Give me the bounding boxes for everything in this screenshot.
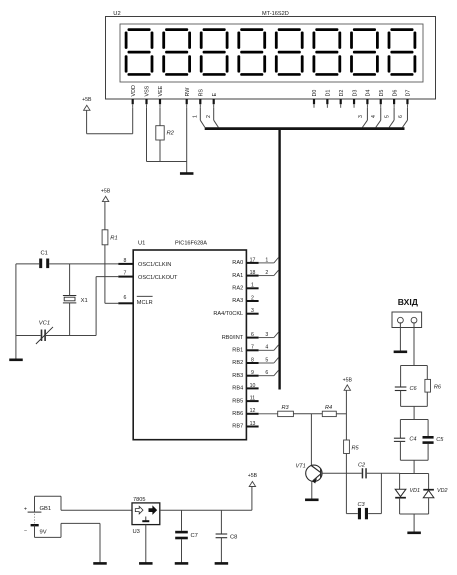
svg-text:R2: R2 [167, 131, 175, 137]
svg-text:4: 4 [265, 345, 268, 351]
svg-text:VD2: VD2 [437, 488, 448, 494]
resistor R6 [425, 366, 431, 407]
display module U2 [106, 17, 436, 100]
U1 pin 12 RB6 [232, 408, 277, 417]
svg-text:MT-16S2D: MT-16S2D [262, 11, 289, 17]
svg-text:RA2: RA2 [232, 286, 243, 292]
wire battery plus to 7805 [35, 496, 133, 512]
svg-text:C6: C6 [410, 386, 418, 392]
svg-text:D2: D2 [339, 90, 345, 97]
wire battery minus to ground [35, 523, 101, 562]
wire C4/C5 box bottom [400, 459, 428, 461]
wire base line [322, 472, 400, 474]
svg-text:C7: C7 [191, 533, 198, 539]
wire C6/R6 box bottom [401, 405, 428, 407]
svg-text:D3: D3 [352, 90, 358, 97]
svg-text:MCLR: MCLR [137, 300, 153, 306]
svg-text:X1: X1 [81, 298, 88, 304]
ground (C8) [215, 562, 229, 565]
crystal X1 [63, 296, 76, 303]
svg-text:VSS: VSS [145, 85, 151, 96]
wire OSC1/CLKIN line [16, 263, 118, 265]
svg-text:13: 13 [250, 421, 256, 427]
svg-text:VDD: VDD [131, 85, 137, 96]
svg-text:RB2: RB2 [232, 360, 243, 366]
transistor VT1 [306, 465, 322, 483]
wire D5 to bus, numbered 4 [371, 108, 381, 128]
U1 pin 7 OSC1/CLKOUT [118, 271, 178, 281]
capacitor C6 [395, 366, 407, 407]
+5V symbol near VT1 [343, 378, 353, 391]
wire R2 to gnd rail [159, 140, 161, 162]
wire VD box to ground [413, 514, 415, 532]
U1 pin 6 MCLR (active low) [118, 295, 152, 306]
svg-text:RB5: RB5 [232, 398, 243, 404]
svg-text:VD1: VD1 [410, 488, 421, 494]
wire VD box bottom [400, 513, 429, 515]
svg-text:RB1: RB1 [232, 348, 243, 354]
resistor R1 [102, 230, 108, 245]
svg-text:−: − [24, 528, 27, 534]
svg-text:10: 10 [250, 383, 256, 389]
svg-text:RB0/INT: RB0/INT [222, 335, 244, 341]
svg-text:GB1: GB1 [40, 506, 52, 512]
wire emitter to ground [311, 481, 313, 499]
wire +5V down to R5 [345, 390, 347, 440]
svg-text:+: + [24, 507, 27, 513]
U2 pin RS [199, 89, 205, 108]
svg-text:+5В: +5В [101, 189, 111, 195]
trimmer capacitor VC1 [36, 327, 53, 344]
wire connector left pin to ground [399, 322, 401, 351]
svg-text:C4: C4 [409, 436, 416, 442]
svg-text:5: 5 [265, 357, 268, 363]
resistor R4 [322, 411, 336, 416]
ground (battery) [93, 562, 107, 565]
svg-text:RB3: RB3 [232, 373, 243, 379]
wire VEE to R2 [159, 108, 161, 126]
U1 pin 8 OSC1/CLKIN [118, 258, 171, 268]
U1 pin 8 RB2 [232, 357, 278, 366]
svg-text:8: 8 [124, 258, 127, 264]
svg-text:17: 17 [250, 257, 256, 263]
svg-text:C1: C1 [41, 251, 48, 257]
battery GB1 [24, 507, 41, 535]
svg-text:2: 2 [206, 115, 212, 118]
svg-text:+5В: +5В [82, 97, 92, 103]
U1 pin 17 RA0 [232, 257, 278, 266]
wire VSS/VEE/RW join [147, 161, 187, 163]
svg-text:PIC16F628A: PIC16F628A [175, 241, 207, 247]
svg-text:U3: U3 [133, 529, 140, 535]
svg-text:RW: RW [185, 87, 191, 97]
ground (7805) [139, 562, 153, 565]
svg-text:1: 1 [251, 283, 254, 289]
U1 pin 1 RA2 [232, 283, 258, 292]
wire +5V to R1 [104, 202, 106, 230]
U1 pin 11 RB5 [232, 396, 258, 405]
svg-text:OSC1/CLKIN: OSC1/CLKIN [138, 262, 171, 268]
resistor R3 [278, 411, 294, 416]
U2 pin D0 [312, 90, 318, 108]
svg-text:E: E [212, 93, 218, 97]
svg-text:VC1: VC1 [39, 321, 50, 327]
svg-text:OSC1/CLKOUT: OSC1/CLKOUT [138, 275, 178, 281]
U2 pin D7 [406, 90, 412, 108]
svg-text:+5В: +5В [343, 378, 353, 384]
svg-text:C2: C2 [358, 462, 366, 468]
svg-text:U2: U2 [113, 11, 120, 17]
svg-text:3: 3 [265, 332, 268, 338]
ground (C7) [175, 562, 189, 565]
svg-text:D6: D6 [392, 90, 398, 97]
svg-text:12: 12 [250, 408, 256, 414]
+5V symbol top-left [82, 97, 92, 110]
op-amp/MCU U1 PIC16F628A box [133, 250, 246, 440]
wire RS to bus, numbered 1 [192, 108, 205, 128]
svg-text:1: 1 [192, 115, 198, 118]
svg-text:D1: D1 [326, 90, 332, 97]
connector XS1 [392, 312, 422, 328]
svg-text:D0: D0 [312, 90, 318, 97]
svg-text:ВХІД: ВХІД [398, 297, 418, 307]
resistor R2 [156, 126, 164, 140]
wire D4 to bus, numbered 3 [358, 108, 368, 128]
svg-text:9V: 9V [40, 530, 47, 536]
wire X1 top [69, 264, 71, 296]
U1 pin 2 RA3 [232, 295, 258, 304]
wire C6/R6 box top [401, 365, 428, 367]
svg-text:C8: C8 [230, 535, 237, 541]
U2 pin D3 [352, 90, 358, 108]
svg-text:D7: D7 [406, 90, 412, 97]
ground (RW) [180, 172, 194, 175]
svg-text:RA4/T0CKL: RA4/T0CKL [213, 311, 243, 317]
svg-text:D5: D5 [379, 90, 385, 97]
U2 pin RW [185, 87, 191, 108]
wire to C4/C5 box [413, 406, 415, 419]
bus vertical [278, 128, 280, 390]
capacitor C7 [175, 510, 188, 562]
svg-text:6: 6 [124, 295, 127, 301]
U1 pin 18 RA1 [232, 270, 278, 279]
diode VD1 [395, 474, 406, 515]
wire OSC1/CLKOUT to bottom line [96, 277, 118, 336]
capacitor C1 [39, 259, 49, 269]
svg-text:RS: RS [199, 89, 205, 97]
svg-text:D4: D4 [366, 90, 372, 97]
svg-text:5: 5 [385, 115, 391, 118]
U1 pin 13 RB7 [232, 421, 258, 430]
wire +5V rail [160, 509, 252, 511]
svg-text:RA0: RA0 [232, 260, 243, 266]
svg-text:7: 7 [251, 345, 254, 351]
svg-text:R4: R4 [325, 405, 332, 411]
U2 pin D2 [339, 90, 345, 108]
wire R5 to base node [345, 454, 347, 474]
svg-text:7805: 7805 [133, 497, 145, 503]
U1 pin 9 RB3 [232, 370, 278, 379]
svg-text:R6: R6 [434, 384, 442, 390]
U2 pin E [212, 93, 218, 108]
wire to VD box [413, 460, 415, 473]
svg-text:2: 2 [251, 295, 254, 301]
wire RW down [186, 108, 188, 174]
svg-text:9: 9 [251, 370, 254, 376]
ground (VD box) [407, 531, 421, 534]
+5V symbol above R1 [101, 189, 111, 202]
U2 pin D1 [326, 90, 332, 108]
svg-text:8: 8 [251, 357, 254, 363]
capacitor C4 [394, 420, 405, 461]
U2 pin D5 [379, 90, 385, 108]
svg-text:C3: C3 [358, 502, 366, 508]
wire X1 bottom [69, 303, 71, 336]
svg-text:4: 4 [371, 115, 377, 118]
wire C3 loop right [380, 473, 382, 513]
svg-text:11: 11 [250, 396, 255, 402]
capacitor C5 [423, 420, 434, 461]
svg-text:R1: R1 [110, 236, 117, 242]
capacitor C8 [216, 510, 228, 562]
svg-text:R5: R5 [352, 446, 360, 452]
U2 pin VDD [131, 85, 137, 108]
svg-text:VT1: VT1 [296, 464, 306, 470]
wire collector from R3/R4 junction [310, 414, 312, 466]
svg-text:RB7: RB7 [232, 424, 243, 430]
wire VD box top [400, 473, 429, 475]
display digits (8x figure 8) [125, 28, 417, 76]
svg-text:2: 2 [265, 270, 268, 276]
wire VDD to +5V [87, 108, 133, 134]
wire left vertical to ground [15, 264, 17, 360]
wire C4/C5 box top [400, 419, 428, 421]
svg-text:3: 3 [251, 308, 254, 314]
wire rail up to +5V [251, 487, 253, 511]
U1 pin 7 RB1 [232, 345, 278, 354]
ground (VT1 emitter) [305, 498, 319, 501]
svg-text:6: 6 [398, 115, 404, 118]
U2 pin D4 [366, 90, 372, 108]
diode VD2 [423, 474, 434, 515]
ground (connector) [394, 350, 408, 353]
U2 pin VSS [145, 85, 151, 107]
U1 pin 10 RB4 [232, 383, 258, 392]
U1 pin 3 RA4/T0CKL [213, 308, 258, 317]
svg-text:1: 1 [265, 257, 268, 263]
svg-text:6: 6 [265, 370, 268, 376]
U1 pin 6 RB0/INT [222, 332, 279, 341]
+5V symbol above C8 rail [248, 473, 258, 486]
svg-text:VEE: VEE [158, 85, 164, 96]
svg-text:+5В: +5В [248, 473, 258, 479]
regulator U3 7805 [132, 503, 160, 525]
ground (osc) [9, 358, 23, 361]
svg-text:18: 18 [250, 270, 256, 276]
wire C3 loop left [345, 473, 347, 513]
capacitor C2 [362, 468, 367, 478]
wire connector right pin down [413, 322, 415, 365]
wire VSS down [146, 108, 148, 162]
wire C3 loop bottom [346, 513, 381, 515]
wire R3 to R4 [293, 413, 322, 415]
svg-text:7: 7 [124, 271, 127, 277]
U2 pin VEE [158, 85, 164, 107]
svg-text:RA3: RA3 [232, 298, 243, 304]
bus horizontal (display data bus) [205, 127, 405, 130]
svg-text:6: 6 [251, 332, 254, 338]
wire D7 to bus, numbered 6 [398, 108, 408, 128]
U2 pin D6 [392, 90, 398, 108]
svg-text:R3: R3 [282, 405, 290, 411]
wire R4 to +5V line [336, 413, 346, 415]
svg-text:C5: C5 [436, 437, 444, 443]
wire R1 to MCLR [105, 245, 118, 303]
wire E to bus, numbered 2 [206, 108, 218, 128]
capacitor C3 [358, 508, 368, 519]
svg-text:RB6: RB6 [232, 411, 243, 417]
wire D6 to bus, numbered 5 [385, 108, 395, 128]
wire 7805 gnd pin [145, 525, 147, 563]
svg-text:3: 3 [358, 115, 364, 118]
svg-text:RA1: RA1 [232, 273, 243, 279]
resistor R5 [344, 440, 350, 454]
svg-text:RB4: RB4 [232, 386, 243, 392]
wire bottom osc line [16, 335, 96, 337]
svg-text:U1: U1 [138, 241, 145, 247]
